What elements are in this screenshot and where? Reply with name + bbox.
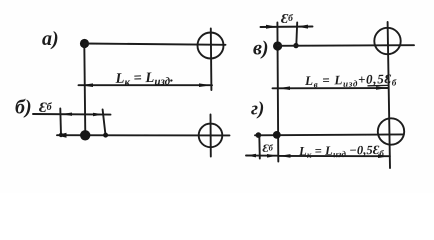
svg-text:Lк = Lизд −0,5Ɛб: Lк = Lизд −0,5Ɛб (298, 143, 385, 160)
extension tick right Eb v (295, 23, 298, 46)
dimension line scheme g (Lk) (278, 155, 390, 157)
hole circle scheme b (199, 124, 223, 148)
dimension text Lk = Lizd (114, 69, 174, 89)
secondary point small dot scheme v (293, 43, 298, 48)
hole circle scheme v (374, 28, 400, 54)
wire: scheme a main horizontal line through hole (85, 44, 226, 45)
arrowhead left end main line b (56, 133, 67, 138)
secondary point small dot scheme g (256, 132, 262, 138)
dim label Eb scheme g (263, 141, 274, 155)
extension tick left scheme b (59, 109, 62, 136)
svg-text:Lк = Lизд.: Lк = Lизд. (114, 69, 174, 89)
arrowhead left Eb g (247, 154, 257, 158)
extension tick right scheme b (103, 110, 106, 136)
locating point big dot scheme v (273, 41, 282, 50)
svg-text:Lв = Lизд+0,5Ɛб: Lв = Lизд+0,5Ɛб (304, 71, 397, 90)
junction dot right tick b (103, 133, 108, 138)
dim label Eb scheme b (39, 100, 53, 116)
wire: scheme b main horizontal line (57, 134, 230, 136)
arrowhead left dim a (81, 83, 94, 87)
locating point big dot scheme b (80, 130, 90, 140)
label g) (251, 99, 264, 120)
wire: long vertical crosshair line from hole v down to hole g (388, 22, 390, 168)
svg-text:Ɛб: Ɛб (281, 12, 294, 27)
arrowhead left dim v (279, 86, 291, 90)
locating point big dot scheme g (273, 131, 281, 139)
small dimension line Eb scheme v (261, 26, 313, 29)
svg-text:Ɛб: Ɛб (263, 141, 274, 155)
arrowhead right Eb v (outside pointing left) (297, 25, 308, 29)
wire: vertical line from Eb dim through big dot v down to scheme g (276, 23, 279, 162)
wire: vertical crosshair of hole a (210, 29, 213, 91)
wire: vertical crosshair of hole b (210, 115, 212, 157)
extension tick left Eb g (258, 135, 261, 158)
label b) (15, 97, 32, 119)
arrowhead left Eb b (61, 113, 72, 116)
label v) (253, 38, 269, 60)
label a) (42, 28, 59, 50)
arrowhead left Eb v (outside pointing right) (266, 25, 277, 29)
small dimension line Eb scheme g (246, 155, 278, 157)
wire: shared vertical extension line from dot a down to dot b (84, 44, 85, 136)
small dimension line Eb scheme b (33, 113, 111, 116)
dimension line scheme a (79, 84, 213, 86)
svg-text:а): а) (42, 28, 59, 50)
locating point dot scheme a (80, 39, 89, 48)
dimension text Lk = Lizd - 0.5Eb (298, 143, 385, 160)
dimension line scheme v (273, 87, 389, 89)
underline stroke under 0,5Eb value (368, 84, 388, 86)
svg-text:г): г) (251, 99, 264, 120)
svg-text:в): в) (253, 38, 269, 60)
wire: scheme g main horizontal line (255, 133, 404, 136)
arrowhead right dim a (199, 83, 211, 87)
arrowhead right Eb g (267, 154, 277, 158)
arrowhead left dim g (279, 154, 291, 158)
arrowhead right dim v (376, 86, 388, 90)
wire: scheme v main horizontal line (278, 44, 415, 47)
arrowhead right dim g (378, 154, 390, 158)
arrowhead right Eb b (93, 113, 104, 116)
hole circle scheme g (378, 118, 404, 144)
hole circle scheme a (198, 33, 224, 59)
dim label Eb scheme v (281, 12, 294, 27)
dimension text Lv = Lizd + 0.5Eb (304, 71, 397, 90)
junction dot left tick b (59, 133, 63, 137)
svg-text:б): б) (15, 97, 32, 119)
